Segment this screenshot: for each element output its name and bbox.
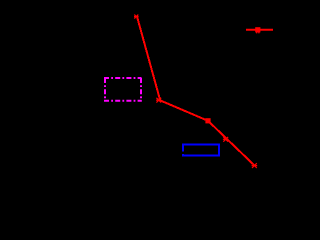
magenta dash-dot rectangle annotation <box>104 78 142 102</box>
marker: cross at point P2 (158.8,100.2) <box>156 98 162 103</box>
marker: cross at point P1 (136.3,16.6) <box>134 15 139 19</box>
blue rectangle annotation <box>183 145 219 156</box>
legend sample line <box>246 29 273 31</box>
marker: cross at point P4 (225.7,139.3) <box>223 137 229 142</box>
data series line (red polyline) <box>137 16 255 166</box>
marker: filled square at point P3 (208,120.8) <box>205 118 210 123</box>
gap notch in blue rectangle left edge <box>182 152 185 155</box>
legend marker: legs below square <box>257 32 259 33</box>
marker: cross at end point P5 (254.4,165.6) <box>252 163 258 168</box>
legend marker: filled square <box>255 27 260 32</box>
